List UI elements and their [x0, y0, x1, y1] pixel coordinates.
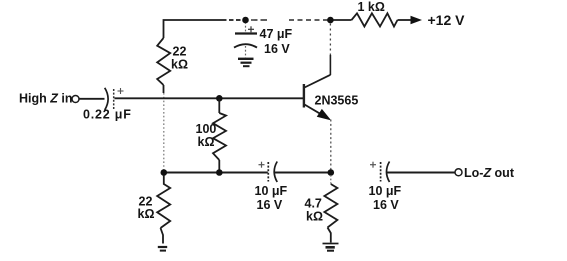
- ground (under C2): [238, 59, 254, 66]
- terminal: Lo-Z out: [455, 169, 462, 176]
- svg-text:16 V: 16 V: [373, 198, 399, 212]
- node: 47uF top rail junction: [242, 17, 249, 24]
- wire: input line (cap to transistor base): [115, 97, 304, 99]
- node: R2 bottom junction: [216, 169, 223, 176]
- value label 22 kOhm (upper): [171, 45, 188, 72]
- svg-text:16 V: 16 V: [264, 42, 290, 56]
- value label 47 uF 16 V: [260, 27, 293, 56]
- resistor R4 4.7 kOhm (emitter load): [324, 175, 337, 243]
- svg-text:High Z in: High Z in: [19, 92, 72, 106]
- wire: input to coupling cap: [80, 98, 105, 100]
- value label 10 uF 16 V (C4): [369, 184, 402, 212]
- svg-text:16 V: 16 V: [257, 198, 283, 212]
- node: emitter node: [328, 169, 335, 176]
- transistor Q1 2N3565: [304, 75, 331, 120]
- wire: bootstrap vertical (dotted, R1 bottom down to node B, crosses input line): [163, 93, 165, 173]
- resistor R3 1 kOhm (supply dropper): [334, 13, 412, 26]
- capacitor C1 0.22 uF (input coupling): [105, 88, 124, 110]
- svg-text:Lo-Z out: Lo-Z out: [464, 166, 515, 180]
- svg-text:22: 22: [173, 45, 187, 59]
- resistor R1 22 kOhm (upper bias): [157, 38, 170, 93]
- node B (divider midpoint): [161, 169, 168, 176]
- resistor R5 22 kOhm (lower bias): [157, 175, 170, 244]
- value label 10 uF 16 V (C3): [255, 184, 288, 212]
- wire: top rail left segment (22k corner to 47uF node): [164, 20, 246, 38]
- capacitor C3 10 uF 16V (bootstrap): [259, 162, 278, 183]
- svg-text:4.7: 4.7: [305, 197, 322, 211]
- node: collector / R3 junction: [327, 17, 334, 24]
- svg-text:kΩ: kΩ: [171, 58, 188, 72]
- wire: bottom line (C3 to emitter node): [275, 172, 331, 174]
- wire: emitter vertical (dotted): [330, 120, 332, 173]
- wire: bottom line (node B to C3): [164, 172, 268, 174]
- value label 22 kOhm (lower): [138, 195, 155, 222]
- value label 4.7 kOhm: [305, 197, 323, 224]
- terminal: High Z in: [72, 96, 79, 103]
- svg-text:kΩ: kΩ: [138, 207, 155, 221]
- wire: collector vertical: [329, 24, 331, 76]
- svg-text:10 μF: 10 μF: [369, 184, 402, 198]
- node: base divider junction: [216, 95, 223, 102]
- svg-text:47 μF: 47 μF: [260, 27, 293, 41]
- wire: bottom line (C4 to output terminal): [387, 172, 455, 174]
- ground (under R4): [323, 244, 339, 251]
- value label 100 kOhm: [196, 122, 217, 149]
- svg-text:0.22 μF: 0.22 μF: [83, 108, 132, 122]
- svg-text:1 kΩ: 1 kΩ: [358, 0, 385, 14]
- capacitor C4 10 uF 16V (output coupling): [370, 162, 390, 183]
- wire: top rail right dashed segment (47uF node to collector node): [251, 19, 330, 21]
- svg-text:100: 100: [196, 122, 217, 136]
- svg-text:10 μF: 10 μF: [255, 184, 288, 198]
- ground (under R5): [158, 247, 167, 251]
- resistor R2 100 kOhm: [213, 98, 226, 172]
- arrow to +12 V: [411, 16, 423, 24]
- capacitor C2 47 uF 16V (supply filter): [234, 22, 257, 58]
- svg-text:2N3565: 2N3565: [315, 94, 359, 108]
- svg-text:kΩ: kΩ: [306, 210, 323, 224]
- svg-text:+12 V: +12 V: [428, 12, 466, 28]
- svg-text:kΩ: kΩ: [198, 135, 215, 149]
